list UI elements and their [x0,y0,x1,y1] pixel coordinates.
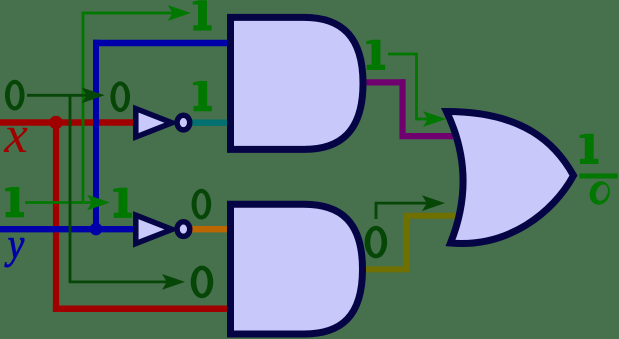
svg-text:x: x [3,106,28,164]
svg-text:y: y [4,221,25,268]
